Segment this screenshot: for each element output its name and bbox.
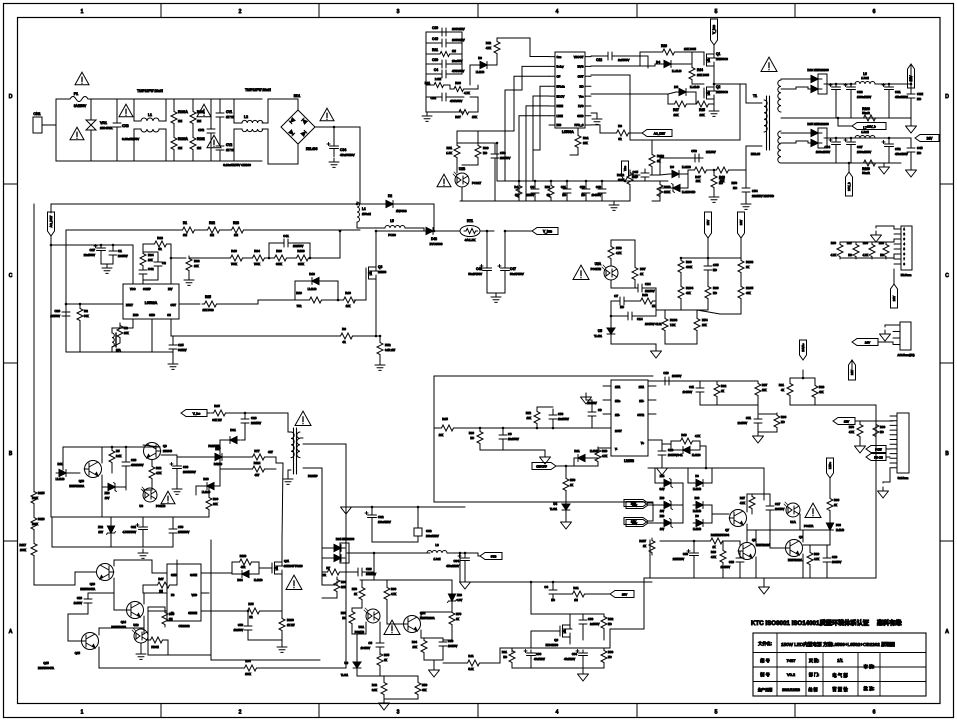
wire — [648, 522, 661, 524]
wire Q9 collector — [161, 454, 177, 456]
wire — [699, 381, 701, 385]
svg-text:C84: C84 — [453, 559, 459, 563]
wire — [835, 98, 837, 118]
optocoupler U9 PC817B — [141, 487, 157, 502]
wire — [444, 85, 452, 89]
wire — [886, 456, 890, 458]
wire — [219, 154, 221, 161]
svg-text:2M: 2M — [169, 618, 172, 621]
wire ECOV harness — [533, 96, 549, 150]
svg-text:FB: FB — [171, 593, 175, 597]
svg-text:10D471K: 10D471K — [100, 126, 113, 130]
svg-text:R62: R62 — [486, 41, 492, 45]
svg-text:MMBT2222A: MMBT2222A — [756, 544, 770, 547]
svg-text:C40: C40 — [596, 185, 602, 189]
warning symbol — [207, 135, 221, 148]
svg-text:C4: C4 — [434, 68, 438, 72]
junction — [50, 244, 53, 247]
svg-text:R105: R105 — [746, 286, 754, 290]
net flag PS_ON — [866, 454, 886, 461]
thermistor RT1 — [460, 226, 480, 237]
svg-text:100P/2KV: 100P/2KV — [452, 27, 465, 31]
svg-text:LVG: LVG — [578, 104, 583, 108]
resistor R58b — [563, 476, 569, 493]
wire — [227, 413, 288, 430]
zener Z1 — [661, 479, 675, 488]
svg-text:47uF/16V: 47uF/16V — [564, 658, 575, 661]
ground — [283, 475, 293, 484]
wire — [683, 170, 692, 174]
wire — [661, 458, 663, 464]
capacitor C9 — [588, 408, 596, 420]
svg-text:104/50V: 104/50V — [832, 561, 842, 564]
wire — [176, 455, 178, 463]
wire — [740, 274, 742, 284]
svg-text:Z10: Z10 — [105, 491, 110, 495]
svg-text:2IN-: 2IN- — [639, 400, 644, 403]
junction — [337, 299, 340, 302]
svg-text:1000uF/35V: 1000uF/35V — [857, 150, 871, 154]
resistor R17 — [749, 494, 755, 511]
capacitor C41 — [280, 239, 292, 247]
svg-text:R44: R44 — [697, 68, 703, 72]
transistor Q14 — [126, 602, 144, 619]
svg-text:NC: NC — [620, 305, 624, 309]
wire — [611, 280, 635, 288]
wire — [114, 560, 152, 566]
capacitor C22 — [438, 93, 450, 101]
svg-text:0R: 0R — [618, 137, 621, 141]
wire — [826, 565, 828, 578]
svg-text:页 数:: 页 数: — [809, 657, 819, 663]
capacitor C28 — [122, 458, 130, 470]
wire — [582, 627, 584, 640]
resistor R116 — [31, 515, 37, 532]
wire — [147, 639, 149, 641]
wire — [383, 696, 385, 699]
wire — [134, 129, 141, 161]
svg-text:C50: C50 — [558, 412, 564, 416]
svg-text:56uF/450V: 56uF/450V — [510, 272, 524, 276]
wire — [648, 502, 653, 504]
wire — [481, 648, 512, 663]
wire — [665, 332, 697, 344]
svg-text:C7: C7 — [614, 294, 618, 298]
svg-text:12A: 12A — [116, 348, 121, 352]
wire Vcc feed — [496, 143, 498, 181]
wire — [556, 465, 574, 467]
wire — [713, 99, 715, 107]
wire — [716, 381, 718, 382]
wire — [143, 243, 152, 245]
svg-text:1IN-: 1IN- — [615, 414, 620, 417]
wire — [151, 460, 153, 464]
svg-text:D25 MBR20200: D25 MBR20200 — [807, 122, 829, 126]
junction — [550, 180, 553, 183]
svg-text:R9: R9 — [618, 124, 622, 128]
resistor R58 — [608, 244, 614, 261]
svg-text:NC: NC — [483, 151, 487, 155]
junction — [247, 610, 250, 613]
resistor R67 — [457, 109, 471, 114]
wire — [386, 601, 388, 612]
svg-text:Z29: Z29 — [660, 514, 665, 518]
wire — [159, 129, 166, 161]
resistor R38 — [452, 86, 466, 91]
capacitor C40 — [598, 185, 606, 197]
resistor R96c — [477, 429, 483, 446]
wire — [815, 404, 876, 406]
svg-text:V0.2: V0.2 — [787, 672, 796, 677]
wire — [586, 393, 592, 400]
svg-text:222/1KV: 222/1KV — [251, 421, 261, 425]
wire — [148, 610, 159, 612]
svg-text:Z24: Z24 — [660, 474, 665, 478]
wire return rail 12V — [781, 117, 911, 119]
svg-text:10K: 10K — [696, 179, 701, 183]
capacitor C56 — [244, 622, 252, 634]
wire — [758, 413, 777, 414]
wire — [177, 456, 212, 458]
svg-text:F1: F1 — [74, 92, 78, 96]
capacitor C14 — [624, 312, 636, 320]
wire — [111, 447, 113, 448]
wire — [661, 444, 663, 448]
junction — [268, 257, 271, 260]
wire — [530, 650, 532, 652]
wire — [478, 553, 480, 556]
junction — [244, 412, 247, 415]
svg-text:4K: 4K — [781, 389, 784, 392]
resistor R206 — [279, 616, 285, 633]
svg-text:4: 4 — [556, 9, 559, 15]
wire — [450, 32, 462, 54]
svg-text:910K: 910K — [298, 262, 304, 266]
svg-text:U1A: U1A — [790, 520, 796, 524]
wire — [456, 159, 458, 173]
wire — [303, 444, 346, 503]
wire — [692, 52, 704, 56]
junction — [479, 427, 482, 430]
svg-text:C56: C56 — [238, 623, 244, 627]
wire reg bottom rail — [357, 675, 418, 677]
svg-text:49K: 49K — [746, 291, 751, 295]
resistor R70 — [857, 422, 863, 439]
svg-text:4R7: 4R7 — [255, 473, 260, 477]
wire — [668, 92, 676, 94]
junction — [534, 180, 537, 183]
svg-text:R55: R55 — [384, 653, 390, 657]
svg-text:NC: NC — [579, 84, 583, 88]
svg-text:56uF/450V: 56uF/450V — [468, 272, 482, 276]
svg-text:D3: D3 — [478, 56, 482, 60]
svg-text:R91: R91 — [779, 383, 785, 387]
svg-text:PC817: PC817 — [472, 181, 482, 185]
net flag 24V c — [891, 284, 898, 308]
svg-text:MMBT3904: MMBT3904 — [716, 534, 730, 537]
svg-text:1K 2W: 1K 2W — [287, 624, 295, 627]
svg-text:1.5uH: 1.5uH — [861, 130, 868, 134]
wire — [676, 51, 692, 53]
svg-text:15K: 15K — [702, 323, 707, 327]
svg-text:C10: C10 — [663, 371, 669, 375]
wire — [713, 189, 715, 193]
ground — [491, 293, 501, 302]
resistor R75 — [245, 608, 262, 614]
svg-text:C30: C30 — [183, 465, 189, 469]
svg-text:C6: C6 — [508, 432, 512, 436]
wire — [196, 229, 205, 231]
svg-text:NC: NC — [719, 181, 723, 185]
resistor R59 — [415, 680, 421, 697]
wire — [192, 151, 194, 161]
resistor R61 — [438, 51, 452, 56]
svg-text:5: 5 — [715, 9, 718, 15]
svg-text:R31: R31 — [583, 136, 589, 140]
wire V_bus top rail — [245, 229, 360, 231]
capacitor C60 — [438, 60, 450, 68]
junction — [373, 552, 376, 555]
wire — [573, 458, 575, 466]
wire — [34, 557, 52, 585]
wire — [266, 457, 276, 463]
wire — [511, 664, 513, 668]
svg-text:D21: D21 — [574, 449, 580, 453]
ground — [329, 158, 339, 167]
svg-text:CN1: CN1 — [33, 112, 40, 116]
wire — [781, 141, 808, 143]
svg-text:1.5uH: 1.5uH — [861, 76, 868, 80]
wire — [426, 84, 432, 86]
svg-text:150W LED内置电源 方案L6599+L6562+OB2: 150W LED内置电源 方案L6599+L6562+OB2262 原理图 — [781, 641, 895, 648]
mosfet Q8 NTD4E408 — [560, 625, 572, 637]
svg-text:KBL406: KBL406 — [306, 147, 318, 151]
resistor R52 — [377, 340, 383, 357]
capacitor C1 — [109, 247, 117, 259]
junction — [65, 303, 68, 306]
svg-text:4.7K: 4.7K — [740, 502, 745, 505]
wire — [116, 99, 118, 119]
net flag AC_DET b — [642, 130, 672, 137]
svg-text:R22: R22 — [209, 221, 215, 225]
svg-text:L4: L4 — [362, 207, 366, 211]
warning symbol — [75, 72, 89, 85]
svg-text:C26: C26 — [366, 567, 372, 571]
wire — [651, 140, 653, 152]
wire bias bottom rail — [52, 546, 173, 548]
wire — [281, 632, 283, 643]
wire — [888, 138, 890, 141]
resistor R81 — [570, 591, 587, 597]
junction — [464, 552, 467, 555]
wire bottom rail — [66, 351, 173, 353]
wire — [634, 287, 635, 289]
svg-text:10K 0603: 10K 0603 — [202, 308, 214, 312]
svg-text:100UF/50V: 100UF/50V — [183, 471, 196, 474]
ground — [741, 200, 751, 209]
svg-text:R86: R86 — [831, 241, 837, 245]
wire — [479, 445, 481, 450]
wire — [62, 447, 64, 470]
diode D2 1N5408 — [383, 201, 397, 208]
svg-text:Q10: Q10 — [79, 479, 85, 483]
wire — [341, 571, 354, 573]
wire — [630, 132, 642, 134]
resistor R97 — [755, 381, 761, 398]
capacitor CY1 — [216, 109, 224, 121]
svg-text:2SK2645 TO220: 2SK2645 TO220 — [284, 565, 303, 568]
svg-text:43K: 43K — [422, 689, 427, 692]
wire — [360, 203, 383, 205]
svg-text:SENSE: SENSE — [188, 611, 197, 615]
svg-text:R69: R69 — [296, 291, 302, 295]
wire — [464, 553, 466, 556]
svg-text:10M/50V: 10M/50V — [293, 244, 304, 248]
wire — [310, 231, 340, 258]
capacitor C3 — [531, 185, 539, 197]
svg-text:B: B — [9, 451, 13, 457]
junction — [707, 257, 710, 260]
svg-text:R19: R19 — [814, 552, 820, 556]
junction — [552, 581, 555, 584]
wire — [269, 243, 280, 258]
wire — [208, 486, 210, 495]
svg-text:10K: 10K — [346, 304, 351, 308]
svg-text:30K 2W: 30K 2W — [212, 418, 222, 422]
net flag STB 5V — [480, 553, 502, 560]
wire — [101, 475, 103, 517]
wire — [50, 492, 52, 517]
diode D19 — [308, 278, 322, 285]
junction — [111, 446, 114, 449]
transistor Q10 — [84, 461, 102, 478]
wire — [648, 504, 661, 506]
svg-text:U5: U5 — [598, 329, 602, 333]
svg-text:R2: R2 — [84, 309, 88, 313]
net flag 12V f — [833, 418, 855, 425]
svg-text:R91: R91 — [502, 650, 508, 654]
resistor R34b — [140, 251, 146, 268]
wire — [763, 468, 765, 500]
svg-text:4.7K: 4.7K — [464, 91, 470, 95]
diode D24 MBR20200 — [818, 128, 827, 148]
wire — [646, 288, 656, 301]
junction — [713, 169, 716, 172]
svg-text:Q11: Q11 — [284, 559, 290, 563]
wire — [893, 269, 895, 284]
wire — [680, 274, 682, 284]
svg-text:0.33uF/275V CBB66: 0.33uF/275V CBB66 — [223, 163, 251, 167]
None — [291, 428, 300, 474]
wire — [322, 548, 331, 558]
warning symbol — [805, 503, 821, 517]
svg-text:OUT: OUT — [578, 75, 584, 79]
svg-text:D: D — [945, 94, 949, 100]
svg-text:KTC ISO9001 ISO14001质量环境体系认证: KTC ISO9001 ISO14001质量环境体系认证 惠科有缘 — [751, 619, 902, 627]
capacitor C21 — [563, 185, 571, 197]
wire — [143, 268, 158, 280]
wire — [693, 563, 695, 578]
svg-text:F100E: F100E — [151, 646, 159, 649]
wire — [552, 597, 554, 601]
svg-text:R92: R92 — [721, 384, 727, 388]
wire — [829, 478, 831, 496]
wire — [534, 181, 536, 185]
svg-text:12V: 12V — [844, 419, 849, 423]
resistor R112 — [627, 170, 633, 187]
wire — [192, 125, 194, 135]
wire — [397, 204, 434, 231]
wire — [537, 406, 553, 408]
wire — [171, 560, 177, 585]
svg-text:LINE: LINE — [557, 114, 563, 118]
net flag 15V b — [610, 591, 634, 598]
svg-text:2M: 2M — [178, 119, 183, 123]
svg-text:R84: R84 — [412, 640, 418, 644]
svg-text:R206: R206 — [287, 618, 294, 622]
svg-text:Css: Css — [557, 55, 562, 59]
svg-text:24V_b: 24V_b — [847, 182, 851, 191]
svg-text:C81: C81 — [895, 90, 901, 94]
svg-text:R46: R46 — [231, 249, 237, 253]
svg-text:2: 2 — [239, 710, 242, 716]
wire — [322, 281, 338, 300]
svg-text:1M: 1M — [574, 599, 577, 602]
wire — [379, 622, 381, 641]
wire — [98, 647, 100, 668]
wire — [219, 99, 221, 109]
resistor R115 — [31, 489, 37, 506]
svg-text:C47: C47 — [510, 267, 516, 271]
wire — [591, 419, 593, 428]
svg-text:5.1K: 5.1K — [468, 668, 473, 671]
wire — [450, 31, 462, 33]
wire Q11 source — [281, 574, 283, 611]
svg-text:D34: D34 — [237, 578, 243, 582]
wire box bottom — [434, 501, 653, 503]
inductor L5 — [385, 226, 405, 229]
wire — [901, 138, 911, 145]
wire — [426, 63, 438, 65]
wire — [747, 494, 752, 512]
wire — [258, 300, 295, 304]
resistor R88 — [869, 242, 875, 259]
wire — [586, 593, 610, 595]
svg-text:4.9V: 4.9V — [457, 599, 462, 602]
wire — [511, 648, 513, 652]
junction — [601, 180, 604, 183]
diode D48 BYC8/600 — [423, 228, 437, 235]
svg-text:7457: 7457 — [787, 658, 797, 663]
svg-text:批 准:: 批 准: — [864, 685, 875, 692]
svg-text:C19: C19 — [832, 555, 838, 559]
None — [764, 96, 770, 150]
wire — [534, 197, 536, 201]
svg-text:TL431: TL431 — [594, 334, 602, 338]
svg-text:Q2: Q2 — [716, 85, 720, 89]
junction — [850, 137, 853, 140]
wire — [424, 637, 443, 639]
wire — [451, 605, 453, 610]
resistor R111 — [708, 538, 725, 544]
svg-text:R32: R32 — [545, 185, 551, 189]
wire — [111, 464, 113, 473]
svg-text:LL4148 NC: LL4148 NC — [682, 190, 695, 194]
bridge rectifier BD1 KBL406 — [281, 110, 315, 144]
wire — [652, 158, 691, 175]
wire — [173, 125, 175, 135]
resistor R6 — [338, 333, 355, 339]
